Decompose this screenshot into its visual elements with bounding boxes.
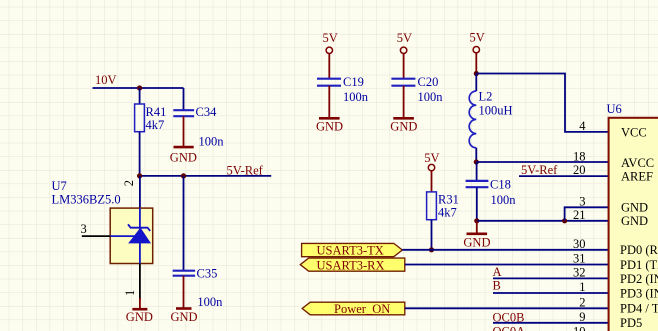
junction C18 / pin21: [474, 218, 479, 223]
ground GND under C35: [171, 276, 198, 324]
resistor R41: [135, 104, 145, 132]
svg-text:100n: 100n: [491, 193, 517, 207]
capacitor C19: [317, 79, 341, 86]
ground GND under C19: [316, 86, 343, 134]
wire pin 9: [493, 322, 609, 324]
wire pin 1: [493, 292, 609, 294]
ground GND under C18: [463, 221, 490, 250]
svg-text:C20: C20: [418, 75, 439, 89]
svg-text:GND: GND: [170, 151, 197, 165]
svg-text:GND: GND: [463, 235, 490, 249]
wire C34 drop: [183, 88, 185, 110]
svg-text:100n: 100n: [199, 135, 225, 149]
wire pin 2: [405, 307, 609, 309]
svg-text:3: 3: [81, 222, 87, 236]
svg-text:PD1 (TXD: PD1 (TXD: [620, 258, 658, 272]
wire 5V-Ref horizontal: [140, 175, 272, 177]
svg-text:PD4 / T0: PD4 / T0: [620, 302, 658, 316]
pin 3 (U7): [82, 235, 110, 237]
junction pin21 / pin3 link: [562, 218, 567, 223]
junction 5V-Ref / U7: [137, 173, 142, 178]
wire pin 31: [405, 264, 609, 266]
svg-text:PD2 (INT0: PD2 (INT0: [620, 272, 658, 286]
zener diode inside U7: [110, 208, 150, 263]
junction 5V / L2 / pin4 wire: [474, 71, 479, 76]
wire L2 top: [475, 74, 477, 92]
svg-text:20: 20: [573, 163, 586, 177]
svg-text:9: 9: [579, 310, 585, 324]
wire pin 32: [493, 277, 609, 279]
junction 5V-Ref / C35: [181, 173, 186, 178]
power 5V (L2): [470, 31, 485, 74]
ground GND under C20: [390, 86, 417, 134]
svg-text:C35: C35: [197, 267, 218, 281]
svg-text:GND: GND: [316, 120, 343, 134]
svg-text:A: A: [493, 265, 502, 279]
svg-text:AREF: AREF: [621, 169, 653, 183]
svg-text:Power_ON: Power_ON: [334, 302, 390, 316]
svg-text:U6: U6: [607, 102, 622, 116]
svg-text:31: 31: [573, 252, 586, 266]
svg-text:100uH: 100uH: [479, 104, 513, 118]
wire L2 bottom: [475, 148, 477, 162]
svg-text:U7: U7: [52, 179, 67, 193]
junction R31 / pin30 wire: [429, 247, 434, 252]
svg-text:18: 18: [573, 150, 586, 164]
svg-text:OC0A: OC0A: [493, 325, 526, 331]
wire AREF pin 20: [519, 175, 609, 177]
svg-text:R41: R41: [146, 105, 167, 119]
wire to AVCC pin 18: [476, 161, 608, 163]
svg-text:5V: 5V: [424, 151, 439, 165]
wire C18 top: [476, 162, 478, 181]
svg-text:GND: GND: [171, 310, 198, 324]
svg-text:100n: 100n: [197, 295, 223, 309]
junction at R41 top: [137, 85, 142, 90]
svg-text:B: B: [493, 279, 501, 293]
IC U7 body LM336BZ5.0: [110, 208, 153, 263]
svg-text:10V: 10V: [95, 73, 117, 87]
svg-text:PD5: PD5: [620, 316, 642, 330]
svg-text:5V: 5V: [397, 31, 412, 45]
wire U7 pin2 drop: [139, 176, 141, 208]
svg-text:LM336BZ5.0: LM336BZ5.0: [52, 193, 121, 207]
svg-text:30: 30: [573, 237, 586, 251]
svg-text:4k7: 4k7: [438, 206, 457, 220]
svg-text:5V: 5V: [323, 31, 338, 45]
wire R41 top: [139, 88, 141, 104]
wire pin 30: [402, 249, 608, 251]
svg-text:USART3-RX: USART3-RX: [317, 258, 385, 272]
IC U6 body: [609, 118, 658, 331]
svg-text:2: 2: [579, 295, 585, 309]
svg-text:10: 10: [573, 324, 586, 331]
svg-text:USART3-TX: USART3-TX: [317, 244, 384, 258]
ground GND under C34: [170, 116, 197, 164]
svg-text:5V-Ref: 5V-Ref: [521, 163, 558, 177]
svg-text:GND: GND: [390, 120, 417, 134]
wire to VCC pin 4: [476, 74, 608, 132]
capacitor C35: [173, 271, 195, 276]
svg-text:4: 4: [579, 119, 586, 133]
ground GND under U7: [126, 298, 153, 324]
svg-text:2: 2: [122, 180, 136, 186]
port USART3-TX: [302, 243, 403, 257]
power 5V (C19): [323, 31, 338, 79]
svg-text:L2: L2: [479, 90, 493, 104]
svg-text:GND: GND: [621, 214, 648, 228]
wire C18 bottom: [476, 187, 478, 221]
wire to GND pin 21: [477, 220, 609, 222]
wire C35 drop: [183, 176, 185, 271]
svg-text:C19: C19: [343, 75, 364, 89]
power 5V (C20): [397, 31, 412, 79]
capacitor C34: [173, 110, 194, 116]
svg-text:AVCC: AVCC: [621, 156, 654, 170]
power 5V (R31): [424, 151, 439, 192]
svg-text:GND: GND: [126, 310, 153, 324]
port USART3-RX: [300, 258, 405, 272]
svg-text:1: 1: [579, 280, 585, 294]
svg-text:1: 1: [123, 290, 137, 296]
pin 1 (U7) wire down: [139, 264, 141, 301]
wire link pin3: [565, 207, 609, 221]
svg-text:PD0 (RXD: PD0 (RXD: [620, 243, 658, 257]
svg-text:5V-Ref: 5V-Ref: [227, 164, 264, 178]
svg-text:100n: 100n: [343, 90, 369, 104]
svg-text:32: 32: [573, 266, 586, 280]
svg-text:VCC: VCC: [621, 125, 647, 139]
svg-text:GND: GND: [621, 201, 648, 215]
svg-text:4k7: 4k7: [146, 118, 165, 132]
capacitor C20: [391, 79, 415, 86]
resistor R31: [427, 192, 437, 220]
inductor L2: [469, 91, 476, 148]
wire 10V horizontal: [93, 87, 184, 89]
svg-text:3: 3: [579, 195, 585, 209]
port Power_ON: [302, 302, 405, 316]
junction L2 / AVCC pin18: [474, 159, 479, 164]
svg-text:R31: R31: [438, 193, 459, 207]
svg-text:5V: 5V: [470, 31, 485, 45]
svg-text:21: 21: [573, 208, 586, 222]
svg-text:C34: C34: [196, 105, 218, 119]
wire R31 bottom: [431, 220, 433, 250]
wire R41 bottom: [139, 132, 141, 176]
svg-text:C18: C18: [490, 178, 511, 192]
svg-text:PD3 (INT1: PD3 (INT1: [620, 286, 658, 300]
svg-text:100n: 100n: [418, 90, 444, 104]
capacitor C18: [466, 181, 489, 187]
